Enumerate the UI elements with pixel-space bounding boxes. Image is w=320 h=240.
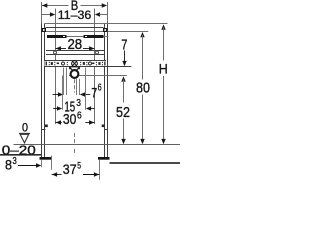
dimension 80 line lower (142, 95, 144, 141)
dimension 8.3 tail (18, 165, 37, 167)
dimension 37.5 arrow right (94, 172, 99, 176)
svg-text:11–36: 11–36 (58, 8, 92, 22)
pipe line right outer (79, 79, 81, 95)
pipe line left inner (66, 68, 68, 96)
dimension 15.3 tail right (90, 108, 94, 110)
svg-text:0: 0 (22, 122, 28, 134)
centre line below drain (74, 79, 76, 92)
dimension B arrow right (102, 3, 107, 7)
left leg fixing tick (45, 125, 48, 128)
dimension 11-36 extension line right (94, 9, 96, 125)
dimension 80 arrow up (140, 32, 144, 37)
left leg joint line (41, 129, 45, 131)
svg-text:0–20: 0–20 (2, 143, 36, 157)
dimension 11-36 arrow right (95, 12, 100, 16)
dimension H line upper (163, 28, 165, 61)
dimension H arrow up (161, 24, 165, 29)
right foot (98, 157, 110, 160)
drain circle (71, 70, 79, 78)
dimension 15.3 extension right (85, 68, 87, 110)
dimension 11-36 tail right (99, 14, 107, 16)
meter rail bottom line (45, 66, 132, 68)
dimension 28 line right (83, 48, 95, 50)
dimension 15.3 arrow right (86, 106, 91, 110)
slider guide line right (104, 36, 109, 38)
slider guide line mid (67, 36, 84, 38)
trap connection line (69, 75, 127, 77)
dimension 52 arrow up (121, 76, 125, 81)
left leg outer line (41, 24, 43, 158)
drain collar (70, 67, 80, 70)
dimension 52 line upper (123, 80, 125, 103)
right leg inner line (104, 24, 106, 158)
right leg outer line (107, 24, 109, 158)
svg-text:H: H (159, 61, 168, 76)
dimension 52 arrow down (121, 139, 125, 144)
left foot (40, 157, 53, 160)
tap rail screw hole left (54, 51, 57, 54)
svg-text:5: 5 (77, 160, 81, 171)
tap rail top line (46, 50, 105, 52)
dimension 7 arrow down (122, 61, 126, 66)
left wall bracket screw (42, 28, 47, 32)
slider bar left (47, 35, 67, 38)
meter rail centre bolt (72, 61, 78, 67)
dimension 11-36 arrow left (50, 12, 55, 16)
dimension 30.6 arrow left (56, 120, 61, 124)
pipe line left outer (63, 68, 65, 96)
dimension 80 arrow down (140, 139, 144, 144)
dimension 30.6 line left (56, 122, 62, 124)
dimension B arrow left (42, 3, 47, 7)
dimension 15.3 arrow left (57, 106, 62, 110)
dimension H line lower (163, 76, 165, 141)
centre line below floor (74, 149, 76, 153)
dimension 7.6 arrow left (58, 92, 63, 96)
dimension 7.6 arrow right (80, 92, 85, 96)
crossbar bottom line extended right (46, 31, 149, 33)
frame top line extended to H (45, 23, 168, 25)
pipe line right inner (76, 79, 78, 95)
dimension 7 shaft (124, 51, 126, 62)
dimension 28 arrow left (56, 46, 61, 50)
tap rail screw hole right (96, 51, 99, 54)
finished floor line (14, 144, 181, 146)
dimension 52 line lower (123, 119, 125, 141)
svg-text:52: 52 (116, 104, 130, 121)
dimension 8.3 extension (41, 160, 43, 168)
svg-text:6: 6 (77, 110, 82, 121)
svg-text:8: 8 (5, 158, 12, 173)
dimension 30.6 arrow right (89, 120, 94, 124)
right wall bracket screw (103, 28, 108, 32)
svg-text:7: 7 (91, 85, 97, 101)
tap rail bottom line (46, 54, 105, 56)
svg-text:80: 80 (136, 80, 150, 97)
dimension 28 arrow right (89, 46, 94, 50)
dimension B extension line left (41, 2, 43, 24)
left leg inner line (44, 24, 46, 158)
svg-text:3: 3 (12, 156, 17, 167)
svg-text:30: 30 (63, 112, 77, 128)
meter rail hole pattern (46, 62, 47, 66)
svg-text:3: 3 (76, 98, 81, 109)
dimension 8.3 arrow (36, 163, 41, 167)
svg-text:6: 6 (98, 83, 102, 94)
dimension 30.6 line right (85, 122, 94, 124)
slider bar right (84, 35, 104, 38)
right slab line (110, 162, 181, 164)
left floor line (0, 154, 41, 156)
dimension B extension line right (107, 2, 109, 24)
dimension 37.5 extension right (99, 160, 101, 180)
dimension 28 line left (56, 48, 67, 50)
dimension 37.5 extension left (51, 156, 53, 170)
dimension 7.6 tail left (53, 94, 60, 96)
dimension 11-36 tail left (42, 14, 51, 16)
centre line above floor (74, 133, 76, 144)
datum line (19, 132, 30, 134)
dimension 7.6 tail right (84, 94, 90, 96)
meter rail body (45, 61, 107, 67)
dimension 37.5 arrow left (52, 172, 57, 176)
crossbar top line (46, 27, 104, 29)
datum triangle (20, 134, 29, 143)
dimension 37.5 line left (52, 174, 62, 176)
dimension B line (42, 5, 69, 7)
dimension 15.3 tail left (53, 108, 57, 110)
dimension H arrow down (161, 139, 165, 144)
meter rail top line (45, 60, 107, 62)
dimension 80 line upper (142, 35, 144, 80)
dimension 15.3 extension left (62, 76, 64, 110)
right leg fixing tick (102, 125, 105, 128)
dimension 11-36 extension line left (55, 9, 57, 125)
svg-text:37: 37 (63, 161, 77, 177)
right leg joint line (104, 129, 108, 131)
dimension 37.5 line right (83, 174, 99, 176)
